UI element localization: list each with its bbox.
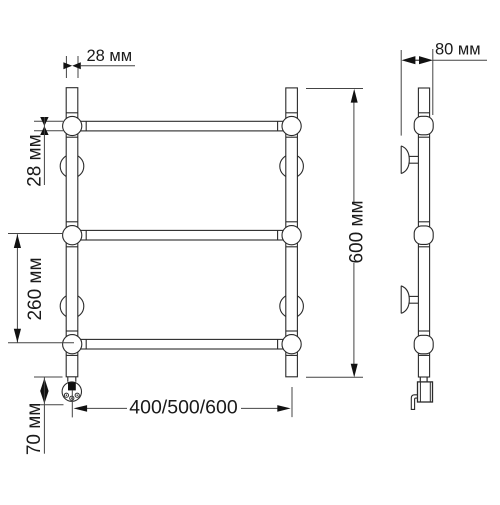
dimension 70 mm: diamond arrows [40, 378, 48, 404]
dimension 600 mm: extension lines [306, 89, 363, 378]
ball joint left bar3 [63, 335, 82, 354]
dimension 28 mm left: extension lines [34, 121, 63, 131]
dimension 80 mm: extension lines [401, 49, 433, 136]
svg-text:600 мм: 600 мм [347, 200, 368, 263]
dimension 28 mm left: bowtie arrows [40, 117, 48, 135]
dimension 28 mm left: label (rotated) [24, 134, 45, 187]
svg-text:28 мм: 28 мм [24, 134, 45, 187]
rail seam lines around joints left rail [66, 113, 78, 356]
dimension 70 mm: dimension line [43, 377, 45, 454]
dimension 28 mm top: label [87, 47, 133, 65]
dimension 70 mm: label (rotated) [24, 403, 45, 456]
dimension 28 mm top: extension ticks [66, 56, 78, 78]
dimension 80 mm: diamond arrows [402, 56, 434, 64]
dimension 28 mm left: dimension line [43, 117, 45, 185]
dimension 80 mm: dimension line [433, 59, 487, 61]
electrical unit screw holes [64, 393, 79, 400]
dimension 28 mm top: bowtie arrows [63, 62, 80, 69]
dimension 70 mm: extension lines [34, 377, 64, 405]
right vertical rail tube [286, 88, 298, 377]
dimension 260 mm: arrows [14, 234, 21, 342]
electrical unit ball [62, 382, 81, 401]
ball joint right bar2 [282, 226, 301, 245]
side ball joint 2 [414, 226, 433, 245]
dimension 400/500/600: extension lines [72, 387, 292, 417]
mid ball (bracket boss) left rail upper [60, 154, 84, 178]
ball joint right bar1 [282, 116, 301, 135]
svg-text:400/500/600: 400/500/600 [129, 397, 238, 419]
svg-text:28 мм: 28 мм [87, 47, 133, 65]
dimension 28 mm top: dimension line [81, 65, 135, 67]
left vertical rail tube [66, 88, 78, 377]
dimension 600 mm: label (rotated) [347, 200, 368, 263]
dimension 260 mm: dimension line [16, 234, 18, 342]
side ball joint 1 [414, 116, 433, 135]
mid ball (bracket boss) left rail lower [60, 294, 84, 318]
dimension 400/500/600: arrows [74, 405, 291, 412]
dimension 400/500/600: label [129, 397, 238, 419]
ball joint left bar2 [63, 226, 82, 245]
side view wall bracket lower [401, 286, 418, 314]
electrical unit black insert [68, 382, 76, 390]
ball joint right bar3 [282, 335, 301, 354]
side view wall bracket upper [401, 146, 418, 174]
dimension 260 mm: extension lines [8, 234, 74, 343]
dimension 600 mm: arrows [351, 89, 358, 378]
side cable hook [411, 395, 417, 410]
bottom neck on left rail [68, 377, 76, 382]
svg-text:80 мм: 80 мм [435, 41, 481, 59]
svg-text:70 мм: 70 мм [24, 403, 45, 456]
side bottom electric box [418, 382, 433, 402]
side tube seam lines [418, 113, 429, 356]
rail seam lines around joints right rail [286, 113, 298, 356]
horizontal bar 3 [72, 339, 292, 349]
dimension 80 mm: label [435, 41, 481, 59]
horizontal bar 1 [72, 121, 292, 131]
dimension 260 mm: label (rotated) [25, 257, 46, 320]
dimension 400/500/600: dimension line segments [86, 407, 278, 409]
side view vertical tube [418, 88, 429, 377]
svg-text:260 мм: 260 мм [25, 257, 46, 320]
mid ball (bracket boss) right rail lower [280, 294, 304, 318]
ball joint left bar1 [63, 116, 82, 135]
dimension 600 mm: dimension line (gap for text) [353, 102, 355, 364]
mid ball (bracket boss) right rail upper [280, 154, 304, 178]
side bottom neck [420, 377, 427, 382]
side ball joint 3 [414, 335, 433, 354]
horizontal bar 2 [72, 230, 292, 240]
